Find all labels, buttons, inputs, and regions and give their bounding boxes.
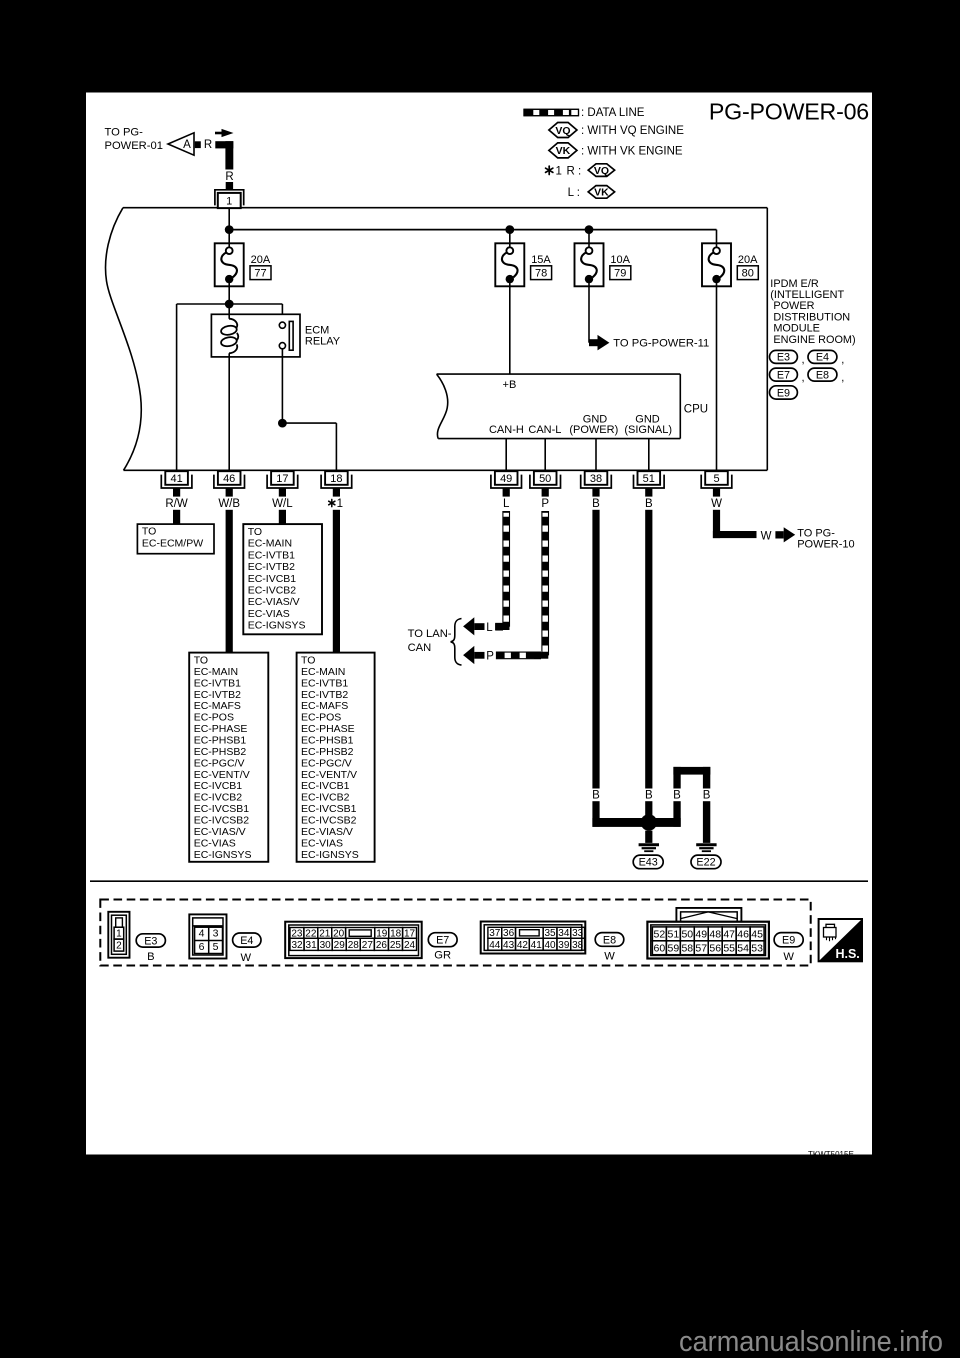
svg-text:B: B <box>703 789 711 801</box>
svg-text:EC-VIAS: EC-VIAS <box>248 608 290 620</box>
svg-text:EC-MAIN: EC-MAIN <box>301 666 345 678</box>
svg-text:TO PG-POWER-11: TO PG-POWER-11 <box>613 337 709 349</box>
svg-text:49: 49 <box>500 473 512 485</box>
svg-text:5: 5 <box>213 941 219 953</box>
svg-text:E8: E8 <box>816 369 829 381</box>
svg-text:41: 41 <box>531 940 543 951</box>
svg-text:EC-IVCSB1: EC-IVCSB1 <box>301 803 357 815</box>
svg-text:DISTRIBUTION: DISTRIBUTION <box>770 311 850 323</box>
svg-text:E43: E43 <box>639 857 658 869</box>
svg-text:29: 29 <box>334 940 346 951</box>
svg-text:EC-MAIN: EC-MAIN <box>194 666 238 678</box>
svg-text:51: 51 <box>643 473 655 485</box>
svg-text:3: 3 <box>213 928 219 940</box>
svg-text:R/W: R/W <box>165 498 188 510</box>
svg-text:EC-IVTB2: EC-IVTB2 <box>248 561 295 573</box>
svg-text:46: 46 <box>223 473 235 485</box>
svg-text:EC-IVTB1: EC-IVTB1 <box>248 549 295 561</box>
svg-text:E7: E7 <box>436 935 449 947</box>
svg-text:EC-IGNSYS: EC-IGNSYS <box>301 849 359 861</box>
svg-text:EC-IVCB2: EC-IVCB2 <box>248 585 297 597</box>
svg-text:EC-IVTB1: EC-IVTB1 <box>194 677 241 689</box>
svg-text:(INTELLIGENT: (INTELLIGENT <box>770 289 844 301</box>
svg-text:IPDM E/R: IPDM E/R <box>770 278 819 290</box>
svg-text:(SIGNAL): (SIGNAL) <box>624 424 672 436</box>
svg-text:EC-IVCSB2: EC-IVCSB2 <box>301 815 357 827</box>
svg-text:EC-VENT/V: EC-VENT/V <box>301 769 357 781</box>
svg-text:52: 52 <box>654 929 666 941</box>
svg-text:,: , <box>841 354 844 366</box>
svg-text:EC-IVTB2: EC-IVTB2 <box>301 689 348 701</box>
svg-text:32: 32 <box>291 940 303 951</box>
svg-text:B: B <box>645 789 653 801</box>
svg-text:POWER-01: POWER-01 <box>105 140 163 152</box>
svg-text:L: L <box>486 622 493 634</box>
svg-text:TO: TO <box>142 526 156 538</box>
svg-text:R: R <box>225 171 233 183</box>
svg-text:W: W <box>604 951 615 963</box>
svg-text:78: 78 <box>535 267 547 279</box>
svg-text:: DATA LINE: : DATA LINE <box>581 107 645 119</box>
svg-text:W/B: W/B <box>218 498 240 510</box>
svg-text:VQ: VQ <box>555 125 570 137</box>
svg-text:53: 53 <box>751 943 763 955</box>
svg-text:EC-IVCSB2: EC-IVCSB2 <box>194 815 250 827</box>
svg-text:CAN-H: CAN-H <box>489 424 524 436</box>
svg-text:TO LAN-: TO LAN- <box>408 628 452 640</box>
svg-text:E22: E22 <box>696 857 715 869</box>
svg-text:B: B <box>147 951 154 963</box>
svg-text:1: 1 <box>226 195 232 207</box>
svg-text:R :: R : <box>567 165 582 177</box>
svg-text:41: 41 <box>170 473 182 485</box>
svg-text:CAN-L: CAN-L <box>528 424 561 436</box>
svg-text:5: 5 <box>713 473 719 485</box>
svg-text:44: 44 <box>489 940 501 951</box>
svg-text:ENGINE ROOM): ENGINE ROOM) <box>770 334 855 346</box>
svg-text:L :: L : <box>568 187 580 199</box>
svg-text:38: 38 <box>590 473 602 485</box>
svg-text:25: 25 <box>390 940 402 951</box>
svg-text:EC-VIAS/V: EC-VIAS/V <box>301 826 353 838</box>
svg-text:B: B <box>645 498 653 510</box>
svg-text:PG-POWER-06: PG-POWER-06 <box>709 99 869 125</box>
svg-text:W: W <box>783 951 794 963</box>
svg-text:EC-IVCB1: EC-IVCB1 <box>248 573 297 585</box>
svg-text:E8: E8 <box>603 934 616 946</box>
svg-text:15A: 15A <box>531 254 551 266</box>
svg-text:37: 37 <box>489 928 501 939</box>
svg-text:1: 1 <box>337 498 343 510</box>
svg-text:47: 47 <box>723 929 735 941</box>
svg-text:E9: E9 <box>777 387 790 399</box>
svg-text:EC-PGC/V: EC-PGC/V <box>301 757 352 769</box>
svg-text:TO: TO <box>301 655 315 667</box>
svg-text:VK: VK <box>556 145 571 157</box>
svg-text:4: 4 <box>199 928 205 940</box>
svg-text:EC-MAIN: EC-MAIN <box>248 538 292 550</box>
svg-text:EC-VIAS/V: EC-VIAS/V <box>248 596 300 608</box>
svg-text:R: R <box>204 139 212 151</box>
svg-text:28: 28 <box>348 940 360 951</box>
svg-text:RELAY: RELAY <box>305 336 341 348</box>
svg-text:EC-MAFS: EC-MAFS <box>301 700 348 712</box>
svg-text:EC-IGNSYS: EC-IGNSYS <box>194 849 252 861</box>
svg-text:27: 27 <box>362 940 374 951</box>
svg-text:carmanualsonline.info: carmanualsonline.info <box>679 1326 943 1358</box>
svg-text:59: 59 <box>667 943 679 955</box>
svg-text:H.S.: H.S. <box>835 947 859 961</box>
svg-text:EC-IVTB1: EC-IVTB1 <box>301 677 348 689</box>
svg-text:33: 33 <box>572 928 584 939</box>
svg-text:B: B <box>592 789 600 801</box>
svg-text:E4: E4 <box>816 352 829 364</box>
svg-text:1: 1 <box>556 165 562 177</box>
svg-text:,: , <box>841 372 844 384</box>
svg-text:20A: 20A <box>738 254 758 266</box>
svg-text:54: 54 <box>737 943 749 955</box>
svg-text:P: P <box>486 651 494 663</box>
svg-text:35: 35 <box>544 928 556 939</box>
svg-text:45: 45 <box>751 929 763 941</box>
svg-text:46: 46 <box>737 929 749 941</box>
svg-text:43: 43 <box>503 940 515 951</box>
svg-text:: WITH VK ENGINE: : WITH VK ENGINE <box>581 145 683 157</box>
svg-text:EC-PHSB1: EC-PHSB1 <box>194 735 247 747</box>
svg-text:E9: E9 <box>782 935 795 947</box>
svg-text:50: 50 <box>539 473 551 485</box>
svg-text:49: 49 <box>695 929 707 941</box>
svg-text:EC-PHSB2: EC-PHSB2 <box>301 746 354 758</box>
svg-text:18: 18 <box>330 473 342 485</box>
svg-text:48: 48 <box>709 929 721 941</box>
svg-text:E3: E3 <box>144 935 157 947</box>
svg-text:38: 38 <box>572 940 584 951</box>
svg-text:26: 26 <box>376 940 388 951</box>
svg-text:TKWT5015E: TKWT5015E <box>808 1150 854 1159</box>
svg-text:P: P <box>541 498 549 510</box>
svg-text:EC-PGC/V: EC-PGC/V <box>194 757 245 769</box>
svg-text:36: 36 <box>503 928 515 939</box>
svg-text:EC-VIAS/V: EC-VIAS/V <box>194 826 246 838</box>
svg-text:39: 39 <box>558 940 570 951</box>
svg-text:2: 2 <box>116 941 122 952</box>
svg-text:17: 17 <box>276 473 288 485</box>
svg-text:EC-ECM/PW: EC-ECM/PW <box>142 538 203 550</box>
svg-text:EC-POS: EC-POS <box>301 712 341 724</box>
svg-text:L: L <box>503 498 510 510</box>
svg-text:MODULE: MODULE <box>770 323 820 335</box>
svg-text:34: 34 <box>558 928 570 939</box>
svg-text:EC-PHSB1: EC-PHSB1 <box>301 735 354 747</box>
svg-text:EC-IVTB2: EC-IVTB2 <box>194 689 241 701</box>
svg-text:POWER: POWER <box>770 300 814 312</box>
svg-text:6: 6 <box>199 941 205 953</box>
svg-text:EC-VENT/V: EC-VENT/V <box>194 769 250 781</box>
svg-text:VQ: VQ <box>594 165 609 177</box>
svg-text:EC-IVCB2: EC-IVCB2 <box>194 792 243 804</box>
svg-text:CPU: CPU <box>684 403 708 415</box>
svg-text:CAN: CAN <box>408 642 432 654</box>
svg-text:EC-IVCSB1: EC-IVCSB1 <box>194 803 250 815</box>
svg-text:W/L: W/L <box>272 498 293 510</box>
svg-text:W: W <box>711 498 722 510</box>
svg-text:51: 51 <box>667 929 679 941</box>
svg-text:57: 57 <box>695 943 707 955</box>
svg-text:EC-IVCB1: EC-IVCB1 <box>301 780 350 792</box>
svg-text:,: , <box>802 354 805 366</box>
svg-text:VK: VK <box>594 187 609 199</box>
svg-text:42: 42 <box>517 940 529 951</box>
svg-text:40: 40 <box>544 940 556 951</box>
svg-text:TO PG-: TO PG- <box>105 127 144 139</box>
svg-text:10A: 10A <box>610 254 630 266</box>
svg-text:,: , <box>802 372 805 384</box>
svg-text:30: 30 <box>320 940 332 951</box>
svg-text:E4: E4 <box>240 935 253 947</box>
svg-text:EC-IVCB1: EC-IVCB1 <box>194 780 243 792</box>
svg-text:E7: E7 <box>777 369 790 381</box>
svg-text:79: 79 <box>614 267 626 279</box>
svg-text:EC-VIAS: EC-VIAS <box>194 837 236 849</box>
svg-text:20A: 20A <box>251 254 271 266</box>
svg-text:56: 56 <box>709 943 721 955</box>
svg-text:EC-PHSB2: EC-PHSB2 <box>194 746 247 758</box>
svg-text:W: W <box>761 530 772 542</box>
svg-text:E3: E3 <box>777 352 790 364</box>
svg-text:GR: GR <box>434 950 451 962</box>
svg-text:1: 1 <box>116 928 122 939</box>
svg-text:TO: TO <box>248 526 262 538</box>
svg-text:EC-IGNSYS: EC-IGNSYS <box>248 620 306 632</box>
svg-text:+B: +B <box>503 379 517 391</box>
svg-text:B: B <box>673 789 681 801</box>
svg-text:55: 55 <box>723 943 735 955</box>
svg-text:58: 58 <box>681 943 693 955</box>
svg-text:EC-VIAS: EC-VIAS <box>301 837 343 849</box>
svg-text:B: B <box>592 498 600 510</box>
svg-text:A: A <box>183 139 191 151</box>
svg-text:(POWER): (POWER) <box>569 424 618 436</box>
svg-text:77: 77 <box>254 267 266 279</box>
svg-text:: WITH VQ ENGINE: : WITH VQ ENGINE <box>581 125 684 137</box>
svg-text:EC-PHASE: EC-PHASE <box>194 723 248 735</box>
svg-text:EC-IVCB2: EC-IVCB2 <box>301 792 350 804</box>
svg-text:ECM: ECM <box>305 324 329 336</box>
svg-text:W: W <box>241 952 252 964</box>
svg-text:80: 80 <box>742 267 754 279</box>
svg-text:EC-PHASE: EC-PHASE <box>301 723 355 735</box>
svg-text:POWER-10: POWER-10 <box>797 538 854 550</box>
svg-text:60: 60 <box>654 943 666 955</box>
svg-text:EC-MAFS: EC-MAFS <box>194 700 241 712</box>
svg-text:EC-POS: EC-POS <box>194 712 234 724</box>
svg-text:31: 31 <box>306 940 318 951</box>
svg-text:TO: TO <box>194 655 208 667</box>
svg-text:24: 24 <box>404 940 416 951</box>
svg-text:50: 50 <box>681 929 693 941</box>
